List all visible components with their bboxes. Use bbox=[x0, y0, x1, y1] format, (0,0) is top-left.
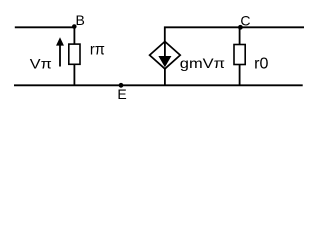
svg-text:C: C bbox=[240, 13, 250, 29]
svg-text:r0: r0 bbox=[254, 56, 269, 73]
svg-text:gmVπ: gmVπ bbox=[180, 55, 226, 71]
svg-text:Vπ: Vπ bbox=[30, 56, 52, 72]
svg-text:rπ: rπ bbox=[90, 42, 105, 59]
svg-text:B: B bbox=[76, 12, 85, 28]
svg-text:E: E bbox=[117, 86, 126, 102]
